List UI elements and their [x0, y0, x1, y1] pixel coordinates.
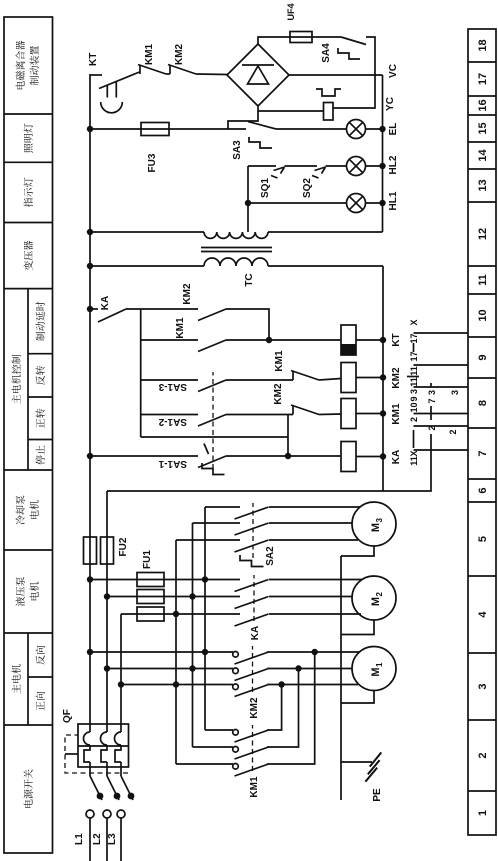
svg-text:SA3: SA3	[232, 140, 243, 160]
svg-text:FU1: FU1	[142, 550, 153, 569]
limit switch SQ1	[271, 167, 285, 178]
svg-text:KM2: KM2	[273, 383, 284, 405]
node bus-TCright junction	[87, 229, 93, 235]
svg-text:2: 2	[448, 429, 458, 434]
svg-text:M: M	[370, 597, 382, 606]
label 制动延时	[36, 301, 45, 340]
wire TC secondary bottom	[268, 231, 383, 233]
wire lamp return	[382, 75, 384, 232]
wire HL1 drop	[248, 202, 347, 204]
label 正转	[36, 409, 45, 428]
svg-text:SQ2: SQ2	[302, 178, 313, 198]
label 液压泵电机	[16, 577, 25, 606]
wire KM2NC to bridge	[196, 73, 227, 76]
wire EL drop lower	[276, 128, 347, 130]
svg-text:7: 7	[427, 398, 437, 403]
wire crossbar row1	[175, 540, 177, 764]
wire YC coil top	[258, 110, 324, 112]
svg-text:15: 15	[477, 122, 489, 134]
wire control rail	[140, 309, 142, 437]
svg-text:KM1: KM1	[391, 403, 402, 425]
svg-text:3: 3	[375, 518, 384, 523]
svg-text:2: 2	[427, 425, 437, 430]
fuse UF4	[290, 32, 312, 43]
wire phase2 return drop	[107, 434, 431, 491]
wire KM1 lower link3	[267, 652, 315, 764]
breaker QF blade pole3	[121, 776, 134, 800]
wire SA1-3 to interlock	[226, 379, 293, 381]
wire interlock to KM1 coil	[319, 413, 341, 416]
switch SA1 linkage	[212, 372, 214, 469]
wire SA1-2 to interlock	[226, 414, 293, 416]
switch SA3 contact	[248, 122, 276, 130]
node KA-return	[380, 453, 386, 459]
label 变压器	[24, 241, 33, 270]
terminal strip line segments	[413, 343, 415, 448]
svg-text:QF: QF	[62, 709, 73, 723]
node merge C	[278, 681, 284, 687]
label 主电机	[12, 664, 21, 693]
node phase3-KM2 junction	[118, 681, 124, 687]
contactor KM2 contact2	[233, 668, 269, 681]
wire bus end drop	[90, 74, 102, 76]
interlock KM2 NC contact	[291, 405, 319, 415]
node KM2-return	[380, 374, 386, 380]
wire KA branch bottom	[226, 309, 269, 340]
wire SA2 riser1	[205, 506, 240, 508]
wire SA2 riser2	[193, 522, 241, 524]
rectifier bridge diamond	[227, 44, 289, 106]
clutch YC plates	[316, 89, 341, 96]
terminal drop a	[414, 449, 469, 451]
coil KA	[341, 442, 356, 472]
limit switch SQ2	[312, 167, 326, 178]
wire FU1a to KA	[162, 579, 240, 581]
breaker QF blade pole2	[107, 776, 120, 800]
wire M3 phaseC	[269, 539, 358, 541]
svg-text:SA1-1: SA1-1	[158, 458, 187, 469]
wire KM2 column2	[107, 668, 233, 670]
svg-text:UF4: UF4	[286, 3, 296, 20]
contactor KM2 contact1	[233, 652, 269, 665]
wire HL2 drop upper	[248, 165, 276, 167]
wire KM1 lower link2	[267, 669, 299, 748]
relay KA linkage	[253, 575, 255, 621]
wire HL1 bottom	[366, 202, 383, 204]
coil KM1	[341, 399, 356, 429]
breaker QF pole2 elements	[101, 724, 108, 776]
node crossbar2-FU1b	[189, 593, 195, 599]
wire M3 frame riser	[341, 546, 374, 556]
wire M1 phaseA lower	[267, 651, 360, 653]
breaker QF linkage	[65, 735, 128, 773]
svg-text:17: 17	[477, 73, 489, 85]
wire KM1NO to KT coil	[226, 339, 341, 341]
svg-text:16: 16	[477, 99, 489, 111]
svg-text:KM2: KM2	[174, 43, 185, 65]
terminal drop f	[414, 332, 469, 334]
contactor KM1 contact3	[233, 764, 269, 777]
node EL-return	[379, 126, 385, 132]
svg-text:KA: KA	[391, 450, 402, 464]
switch SA1-3 contact	[198, 380, 226, 392]
node phase2-FU1 junction	[104, 593, 110, 599]
switch SA2 linkage	[252, 503, 254, 558]
contact KA NO	[98, 309, 126, 322]
transformer TC core	[201, 248, 272, 252]
wire KM1 column1	[205, 729, 233, 731]
wire HL2 drop middle	[285, 165, 318, 167]
switch SA2 contact1	[235, 507, 269, 519]
svg-text:7: 7	[477, 450, 489, 456]
wire L3 inlet	[120, 818, 122, 861]
ground PE symbol	[365, 752, 381, 781]
timer contact KT legs	[107, 81, 116, 98]
wire phase3	[120, 614, 122, 724]
svg-text:5: 5	[477, 536, 489, 542]
svg-text:KM1: KM1	[144, 43, 155, 65]
wire interlock to KM2 coil	[319, 379, 341, 381]
svg-text:8: 8	[477, 400, 489, 406]
label 主电机控制	[12, 355, 21, 404]
svg-text:SA4: SA4	[321, 43, 332, 63]
coil KA drop	[356, 456, 383, 458]
svg-text:FU3: FU3	[147, 153, 158, 172]
wire HL2 bottom	[366, 165, 383, 167]
svg-text:3: 3	[450, 390, 460, 395]
interlock KM1 NC top chain	[138, 65, 166, 75]
coil KM1 drop	[356, 413, 383, 415]
svg-text:2: 2	[409, 417, 419, 422]
transformer TC left winding	[204, 258, 268, 266]
wire M1 phaseC lower	[267, 684, 358, 686]
label 电源开关	[24, 769, 33, 807]
switch SA2 contact2	[235, 523, 269, 535]
interlock KM1 NC contact	[291, 371, 319, 381]
node KT-return	[380, 337, 386, 343]
svg-text:9: 9	[409, 396, 419, 401]
coil KT drop	[356, 339, 383, 341]
wire M3 phaseA	[269, 506, 360, 508]
node phase2-KM2 junction	[104, 665, 110, 671]
coil KT	[341, 325, 356, 355]
svg-text:11: 11	[477, 274, 489, 286]
contactor KM1 linkage	[252, 725, 254, 771]
contactor KM1 contact2	[233, 747, 269, 760]
wire SA1-2 drop	[141, 414, 198, 416]
wire KT branch drop	[141, 339, 198, 341]
svg-text:SA1-2: SA1-2	[158, 416, 187, 427]
terminal drop c	[414, 413, 469, 415]
switch SA2 contact3	[235, 540, 269, 552]
motor M2	[352, 576, 396, 620]
svg-text:1: 1	[375, 662, 384, 667]
switch SA1-1 tick	[204, 444, 209, 455]
relay KA contact1	[235, 580, 269, 592]
wire EL bottom	[366, 128, 383, 130]
node KT branch join	[266, 337, 272, 343]
svg-text:SA2: SA2	[265, 546, 276, 566]
svg-text:3: 3	[427, 390, 437, 395]
fuse FU2 pole1	[84, 537, 97, 564]
terminal L3	[117, 810, 125, 818]
clutch YC coil	[324, 103, 334, 121]
timer contact KT blade	[99, 72, 140, 89]
svg-text:18: 18	[477, 39, 489, 51]
fuse FU1 pole3	[121, 607, 164, 621]
contactor KM1 contact1	[233, 730, 269, 743]
fuse FU1 pole1	[90, 573, 164, 587]
node KM1-return	[380, 410, 386, 416]
wire M1 phaseB lower	[267, 668, 352, 670]
svg-text:10: 10	[409, 402, 419, 412]
wire M2 frame riser	[341, 620, 374, 635]
wire PE bus	[340, 556, 342, 800]
switch SA2 handle	[240, 555, 264, 567]
node SA1-1 cross junction	[285, 453, 291, 459]
svg-text:X: X	[409, 319, 419, 325]
svg-text:KT: KT	[391, 333, 402, 346]
svg-text:X: X	[409, 450, 419, 456]
node merge B	[295, 665, 301, 671]
wire crossbar row2	[192, 523, 194, 747]
wire SA1-3 drop	[141, 379, 198, 381]
node bus-EL junction	[87, 126, 93, 132]
label 照明灯	[24, 124, 33, 153]
relay KA contact2	[235, 597, 269, 609]
svg-text:EL: EL	[388, 123, 399, 136]
label 正向	[36, 692, 45, 711]
wire SA2 riser3	[176, 539, 240, 541]
node crossbar1-KM2w3	[173, 681, 179, 687]
svg-text:13: 13	[477, 179, 489, 191]
contact KM1 NO selfhold	[198, 340, 226, 352]
wire FU1c to KA	[162, 613, 240, 615]
contactor KM2 contact3	[233, 684, 269, 697]
coil KM2 drop	[356, 377, 383, 379]
switch SA4 handle	[338, 48, 360, 59]
svg-text:14: 14	[477, 149, 489, 162]
node crossbar1-FU1c	[173, 611, 179, 617]
breaker QF box	[78, 724, 129, 767]
svg-text:9: 9	[477, 354, 489, 360]
svg-text:KM1: KM1	[175, 317, 186, 339]
wire KM2 column3	[121, 684, 233, 686]
label 停止	[36, 445, 45, 464]
wire crossbar row3	[204, 507, 206, 730]
lamp EL	[347, 120, 366, 139]
node crossbar2-KM2w2	[189, 665, 195, 671]
wire phase2	[106, 491, 108, 724]
svg-text:4: 4	[477, 611, 489, 618]
wire PE drop	[341, 761, 372, 763]
terminal L2	[103, 810, 111, 818]
svg-text:KM2: KM2	[391, 367, 402, 389]
wire EL drop middle	[141, 128, 246, 130]
node bus-TCleft junction	[87, 263, 93, 269]
interlock KM2 NC top chain	[168, 65, 196, 75]
wire UF4 to SA4	[290, 36, 341, 38]
wire M2 phaseA	[269, 579, 362, 581]
label 指示灯	[24, 178, 33, 207]
svg-text:2: 2	[477, 752, 489, 758]
svg-text:12: 12	[477, 228, 489, 240]
wire TC tap to lamps	[247, 166, 249, 232]
contact KM2 NO	[198, 309, 226, 321]
svg-text:PE: PE	[372, 788, 383, 802]
svg-text:M: M	[370, 523, 382, 532]
transformer TC right winding	[204, 232, 268, 238]
node bus-KA junction	[87, 306, 93, 312]
fuse FU1 pole2	[107, 590, 164, 604]
breaker QF blade pole1	[90, 776, 103, 800]
contactor KM2 linkage	[252, 646, 254, 692]
wire control return bus	[382, 266, 384, 491]
svg-text:KM2: KM2	[249, 697, 260, 719]
wire M1 frame riser	[341, 691, 374, 704]
svg-text:3: 3	[477, 683, 489, 689]
breaker QF pole3 elements	[115, 724, 122, 776]
node merge A	[312, 649, 318, 655]
rectifier diode	[242, 65, 274, 84]
wire FU1b to KA	[162, 596, 240, 598]
wire M3 phaseB	[269, 522, 352, 524]
svg-text:L1: L1	[74, 833, 85, 845]
wire EL drop top	[90, 128, 141, 130]
wire cross link	[287, 415, 289, 457]
svg-text:KM2: KM2	[182, 283, 193, 305]
svg-text:10: 10	[477, 309, 489, 321]
svg-text:KA: KA	[100, 296, 111, 310]
wire M2 phaseB	[269, 596, 352, 598]
svg-text:11: 11	[409, 366, 419, 376]
node crossbar3-FU1a	[202, 576, 208, 582]
fuse FU3	[141, 123, 169, 136]
relay KA contact3	[235, 614, 269, 626]
svg-text:HL1: HL1	[388, 191, 399, 210]
lamp HL1	[347, 194, 366, 213]
wire bridge bottom to return	[289, 74, 383, 76]
svg-text:TC: TC	[244, 273, 255, 286]
svg-text:KM1: KM1	[249, 776, 260, 798]
svg-text:SA1-3: SA1-3	[158, 381, 187, 392]
wire TC primary bottom	[268, 265, 383, 267]
node crossbar3-KM2w1	[202, 649, 208, 655]
wire rail end drop	[141, 436, 288, 438]
wire KM1 lower link1	[267, 685, 282, 731]
wire KA branch middle	[126, 308, 198, 310]
node phase1-FU1 junction	[87, 576, 93, 582]
switch SA1-1 contact	[198, 456, 226, 468]
svg-text:VC: VC	[388, 64, 399, 78]
svg-text:3: 3	[409, 389, 419, 394]
wire phase1 bus	[89, 74, 91, 724]
motor M1	[352, 647, 396, 691]
switch SA4 contact	[341, 37, 366, 45]
wire M2 phaseC	[269, 613, 361, 615]
node HL1-return	[379, 200, 385, 206]
svg-text:17: 17	[409, 351, 419, 361]
wire L2 inlet	[106, 818, 108, 861]
label 电磁离合器制动装置	[16, 41, 25, 89]
switch SA3 handle	[249, 137, 272, 148]
lamp HL2	[326, 157, 366, 176]
wire TC secondary top	[90, 231, 204, 233]
svg-text:6: 6	[477, 487, 489, 493]
node HL2-return	[379, 163, 385, 169]
svg-text:FU2: FU2	[118, 537, 129, 556]
wire number row2 segment c	[430, 383, 432, 387]
wire SA1-1 to KA coil	[226, 455, 341, 457]
wire SA4 loop bottom	[333, 37, 375, 108]
svg-text:KA: KA	[250, 626, 261, 640]
label 反转	[36, 366, 45, 385]
terminal bar g	[407, 376, 419, 378]
motor M3	[352, 502, 396, 546]
wire number row2 segment b	[430, 406, 432, 420]
wire L1 inlet	[89, 818, 91, 861]
switch SA1 handle	[202, 463, 225, 475]
svg-text:YC: YC	[385, 97, 396, 111]
svg-text:11: 11	[409, 377, 419, 387]
timer contact KT arc	[101, 102, 123, 113]
svg-text:1: 1	[477, 810, 489, 816]
wire KM1NC to KM2NC	[166, 73, 170, 75]
label 反向	[36, 646, 45, 665]
wire DC+ to UF4	[258, 37, 290, 44]
svg-text:KM1: KM1	[274, 350, 285, 372]
node tap-HL1 junction	[245, 200, 251, 206]
terminal drop e	[414, 364, 469, 366]
svg-text:L3: L3	[107, 833, 118, 845]
node phase1-KM2 junction	[87, 649, 93, 655]
number row frame	[468, 29, 496, 835]
terminal drop b	[414, 425, 469, 427]
svg-text:L2: L2	[92, 833, 103, 845]
wire SA1-1 drop	[90, 455, 198, 457]
svg-text:11: 11	[409, 456, 419, 466]
svg-text:17: 17	[409, 333, 419, 343]
wire AC2 feed	[228, 106, 258, 129]
wire KA branch drop	[90, 308, 98, 310]
wire KM1 column3	[176, 763, 233, 765]
svg-text:2: 2	[375, 592, 384, 597]
label 冷却泵电机	[16, 495, 25, 524]
terminal L1	[86, 810, 94, 818]
label row frame	[4, 17, 53, 853]
svg-text:KT: KT	[88, 53, 99, 66]
switch SA1-2 contact	[198, 415, 226, 427]
wire TC primary top	[90, 265, 204, 267]
svg-text:M: M	[370, 667, 382, 676]
wire KM1 column2	[193, 746, 234, 748]
terminal drop d	[414, 386, 469, 388]
wire KM2 column1	[90, 651, 233, 653]
node bus-SA1 junction	[87, 453, 93, 459]
fuse FU2 pole2	[101, 537, 114, 564]
coil KM2	[341, 363, 356, 393]
breaker QF pole1 elements	[84, 724, 91, 776]
svg-text:SQ1: SQ1	[260, 178, 271, 198]
svg-text:HL2: HL2	[388, 155, 399, 174]
